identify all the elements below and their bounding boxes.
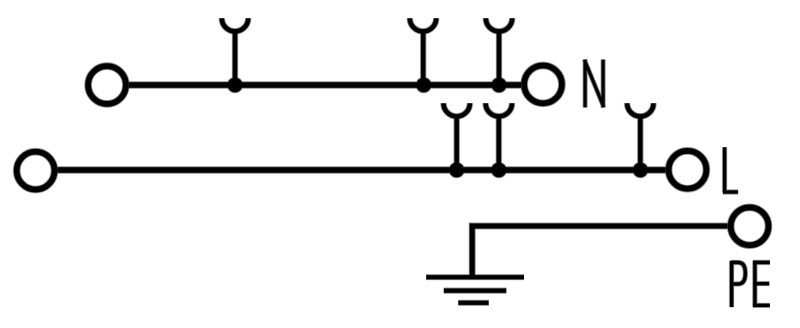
ground symbol bar 3 bbox=[458, 301, 488, 305]
label PE, E stem bbox=[753, 261, 756, 307]
label N, right stem bbox=[602, 60, 605, 108]
junction dot, L #3 bbox=[633, 163, 648, 178]
wire, clamp stem N #3 bbox=[497, 30, 501, 86]
label PE, E base bar bbox=[753, 304, 770, 307]
ground symbol bar 2 bbox=[444, 289, 507, 293]
terminal circle, N bus right (N) bbox=[524, 66, 562, 104]
label PE, E mid bar bbox=[753, 282, 769, 285]
wire, clamp stem N #2 bbox=[421, 30, 425, 86]
wire, N bus bbox=[129, 82, 521, 87]
wire, clamp stem L #1 bbox=[455, 115, 459, 170]
junction dot, N #2 bbox=[416, 78, 431, 93]
wire, clamp stem L #3 bbox=[638, 115, 642, 170]
clamp contact arc, N #3 bbox=[486, 18, 512, 31]
ground symbol bar 1 bbox=[426, 275, 524, 279]
clamp contact arc, L #1 bbox=[444, 103, 470, 116]
terminal circle, PE bbox=[731, 207, 769, 245]
clamp contact arc, N #1 bbox=[222, 18, 248, 31]
junction dot, L #2 bbox=[492, 163, 507, 178]
label PE, P bowl bbox=[732, 262, 746, 284]
label PE, P stem bbox=[730, 261, 733, 307]
label PE, E top bar bbox=[753, 261, 770, 264]
terminal circle, L bus right (L) bbox=[669, 151, 707, 189]
terminal circle, N bus left bbox=[88, 66, 126, 104]
junction dot, L #1 bbox=[449, 163, 464, 178]
label N, diagonal bbox=[584, 60, 603, 107]
clamp contact arc, L #2 bbox=[486, 103, 512, 116]
wire, clamp stem N #1 bbox=[233, 30, 237, 86]
label N, left stem bbox=[584, 60, 587, 108]
label L, stem bbox=[723, 147, 726, 192]
clamp contact arc, N #2 bbox=[410, 18, 436, 31]
label L, base bar bbox=[723, 190, 738, 193]
wire, L bus bbox=[57, 167, 665, 172]
wire, clamp stem L #2 bbox=[497, 115, 501, 170]
junction dot, N #1 bbox=[228, 78, 243, 93]
terminal circle, L bus left bbox=[17, 152, 55, 190]
wire, PE bbox=[472, 226, 728, 277]
clamp contact arc, L #3 bbox=[627, 103, 653, 116]
junction dot, N #3 bbox=[492, 78, 507, 93]
